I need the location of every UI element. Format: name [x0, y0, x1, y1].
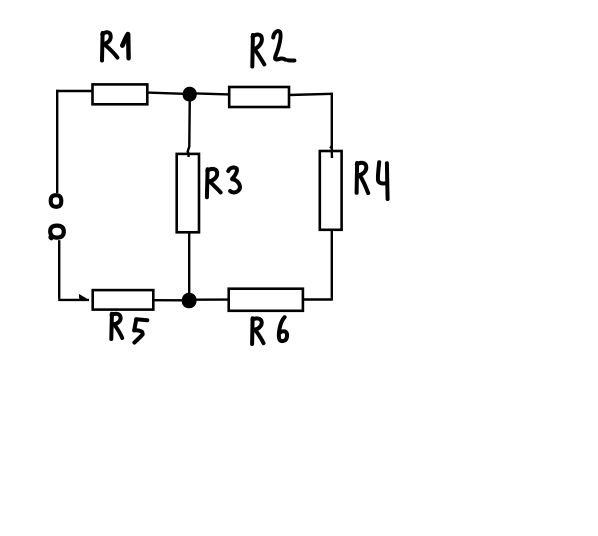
wire R2 right to top-right corner — [289, 94, 332, 95]
resistor R5 — [93, 290, 154, 310]
resistor R4 — [320, 151, 342, 230]
resistor R2 — [229, 87, 289, 107]
label R2 digit 2 — [273, 31, 285, 60]
wire node A down to R3 with kink — [188, 95, 190, 157]
arrowhead on bottom-left wire — [79, 295, 85, 300]
terminal circle lower — [50, 226, 64, 238]
label R4 letter R — [355, 163, 360, 193]
wire bottom-left horizontal — [58, 299, 89, 301]
wire R1 right to node A — [147, 93, 184, 94]
label R1 letter R — [100, 33, 105, 61]
wire node B to R6 — [196, 298, 229, 301]
wire right vertical lower — [331, 230, 333, 301]
label R6 digit 6 — [279, 317, 287, 341]
label R6 letter R — [250, 318, 255, 344]
wire node A to R2 — [196, 93, 230, 94]
tick on right vertical wire above R4 — [330, 145, 332, 148]
wire left vertical lower — [58, 240, 60, 299]
node A junction dot — [183, 87, 196, 101]
resistor R1 — [93, 84, 148, 104]
wire R3 bottom to node B — [188, 232, 190, 295]
label R5 letter R — [109, 314, 114, 339]
terminal circle upper — [51, 195, 62, 207]
wire R5 right to node B — [154, 299, 184, 301]
wire right vertical upper — [331, 93, 334, 158]
label R5 digit 5 — [136, 317, 147, 322]
resistor R3 — [177, 154, 199, 232]
wire top-left horizontal — [56, 90, 93, 92]
resistor R6 — [229, 289, 303, 311]
label R1 digit 1 — [122, 34, 127, 45]
wire left vertical upper — [56, 90, 58, 193]
label R2 letter R — [250, 35, 255, 67]
wire R6 right to bottom-right corner — [303, 298, 332, 300]
label R3 digit 3 — [228, 167, 240, 192]
terminal circle lower tail — [50, 236, 52, 239]
label R4 digit 4 — [378, 162, 387, 183]
node B junction dot — [182, 293, 196, 308]
label R3 letter R — [205, 169, 210, 197]
